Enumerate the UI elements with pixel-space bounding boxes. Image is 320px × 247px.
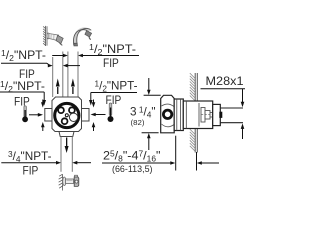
- svg-text:(82): (82): [131, 118, 146, 127]
- flow arrow up in pipe A: [56, 79, 60, 95]
- flow arrow down in bottom pipe: [65, 138, 69, 154]
- small center circle: [65, 114, 68, 117]
- side view: step adapter: [213, 104, 221, 125]
- svg-text:FIP: FIP: [103, 56, 119, 70]
- right thermometer icon: [108, 103, 114, 122]
- inner donut top-right: [69, 107, 75, 113]
- svg-text:3/4"NPT-: 3/4"NPT-: [8, 149, 52, 164]
- wall (below valve): double face line + hatch ticks: [190, 129, 198, 153]
- side view port ring (black donut): [163, 110, 171, 118]
- dimension row 2 (pipe A width) + label top-left leader: [1, 63, 80, 67]
- big cartridge ring: [55, 103, 79, 127]
- svg-text:FIP: FIP: [106, 93, 122, 107]
- white circle right (port plug): [69, 113, 77, 121]
- arrow from right thermometer to right port: [91, 113, 106, 117]
- side view: cartridge sleeve (through wall): [183, 101, 212, 129]
- side body casting curves: [162, 104, 175, 127]
- wall (above valve): double face line + hatch ticks: [190, 73, 198, 101]
- left port vertical dimension: [41, 100, 45, 132]
- bottom port boss: [59, 132, 74, 137]
- svg-text:1/2"NPT-: 1/2"NPT-: [89, 42, 136, 57]
- pipe A (left top pipe): [53, 52, 63, 98]
- icon: shower arm (top right): [73, 28, 91, 45]
- inner donut top-left: [58, 107, 64, 113]
- bottom pipe: [61, 137, 72, 172]
- arrow from left thermometer to left port: [29, 113, 43, 117]
- adjuster slot (black): [219, 112, 222, 118]
- inner donut bottom: [62, 118, 68, 124]
- svg-text:M28x1: M28x1: [206, 74, 244, 88]
- stem tube (M28x1 thread): [220, 108, 243, 123]
- dimension row 1 (pipe B width): [52, 54, 139, 58]
- side view: union nut: [174, 99, 183, 131]
- svg-text:1/2"NPT-: 1/2"NPT-: [1, 48, 46, 63]
- vertical dimension 3 1/4" (82): [142, 78, 161, 150]
- icon: tub spout on wall (top left): [43, 26, 63, 46]
- pipe B (right top pipe): [68, 52, 78, 98]
- left port tab: [45, 109, 52, 122]
- svg-text:FIP: FIP: [23, 164, 39, 178]
- cartridge internals: [199, 103, 212, 127]
- horizontal dimension 2 5/8" - 4 7/16": [102, 136, 219, 171]
- side view: valve body: [161, 95, 175, 133]
- svg-text:1/2"NPT-: 1/2"NPT-: [95, 78, 138, 93]
- svg-text:FIP: FIP: [14, 95, 30, 109]
- svg-text:(66-113,5): (66-113,5): [112, 164, 153, 174]
- valve body (front view): [52, 97, 82, 132]
- right port tab: [82, 109, 90, 122]
- icon: tub spout small (bottom): [59, 174, 79, 190]
- flow arrow up in pipe B: [71, 79, 75, 95]
- right port vertical dimension: [92, 100, 96, 132]
- left thermometer icon: [22, 106, 28, 122]
